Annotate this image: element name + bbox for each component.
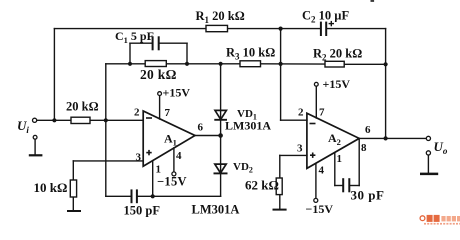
svg-text:20 kΩ: 20 kΩ bbox=[140, 67, 177, 82]
svg-text:6: 6 bbox=[365, 124, 371, 136]
svg-text:8: 8 bbox=[361, 142, 367, 154]
svg-text:150 pF: 150 pF bbox=[124, 204, 161, 218]
svg-text:1: 1 bbox=[337, 153, 343, 165]
svg-text:−15V: −15V bbox=[157, 175, 187, 189]
svg-text:4: 4 bbox=[176, 150, 182, 162]
svg-text:−15V: −15V bbox=[306, 202, 334, 216]
svg-text:+15V: +15V bbox=[163, 86, 191, 100]
svg-text:3: 3 bbox=[136, 152, 142, 164]
svg-text:7: 7 bbox=[165, 107, 171, 119]
svg-text:3: 3 bbox=[297, 143, 303, 155]
svg-text:A1: A1 bbox=[164, 132, 177, 148]
svg-text:R2 20 kΩ: R2 20 kΩ bbox=[313, 47, 362, 63]
svg-text:1: 1 bbox=[156, 164, 162, 176]
svg-text:C1 5 pF: C1 5 pF bbox=[115, 29, 154, 45]
svg-text:VD2: VD2 bbox=[233, 161, 253, 175]
svg-text:+15V: +15V bbox=[323, 77, 351, 91]
svg-text:A2: A2 bbox=[328, 131, 341, 147]
svg-text:LM301A: LM301A bbox=[192, 202, 240, 216]
svg-text:Ui: Ui bbox=[17, 118, 29, 135]
svg-text:4: 4 bbox=[319, 165, 325, 177]
svg-text:62 kΩ: 62 kΩ bbox=[245, 178, 279, 193]
svg-text:20 kΩ: 20 kΩ bbox=[66, 100, 99, 114]
svg-text:6: 6 bbox=[198, 122, 204, 134]
svg-text:LM301A: LM301A bbox=[225, 119, 271, 133]
svg-text:C2 10 µF: C2 10 µF bbox=[302, 9, 349, 25]
svg-text:R1 20 kΩ: R1 20 kΩ bbox=[196, 9, 245, 25]
svg-text:R3 10 kΩ: R3 10 kΩ bbox=[226, 46, 275, 62]
svg-text:30 pF: 30 pF bbox=[351, 188, 385, 203]
svg-text:2: 2 bbox=[134, 107, 140, 119]
svg-text:7: 7 bbox=[319, 107, 325, 119]
svg-text:10 kΩ: 10 kΩ bbox=[34, 180, 68, 195]
svg-text:Uo: Uo bbox=[434, 139, 448, 156]
svg-text:2: 2 bbox=[298, 107, 304, 119]
